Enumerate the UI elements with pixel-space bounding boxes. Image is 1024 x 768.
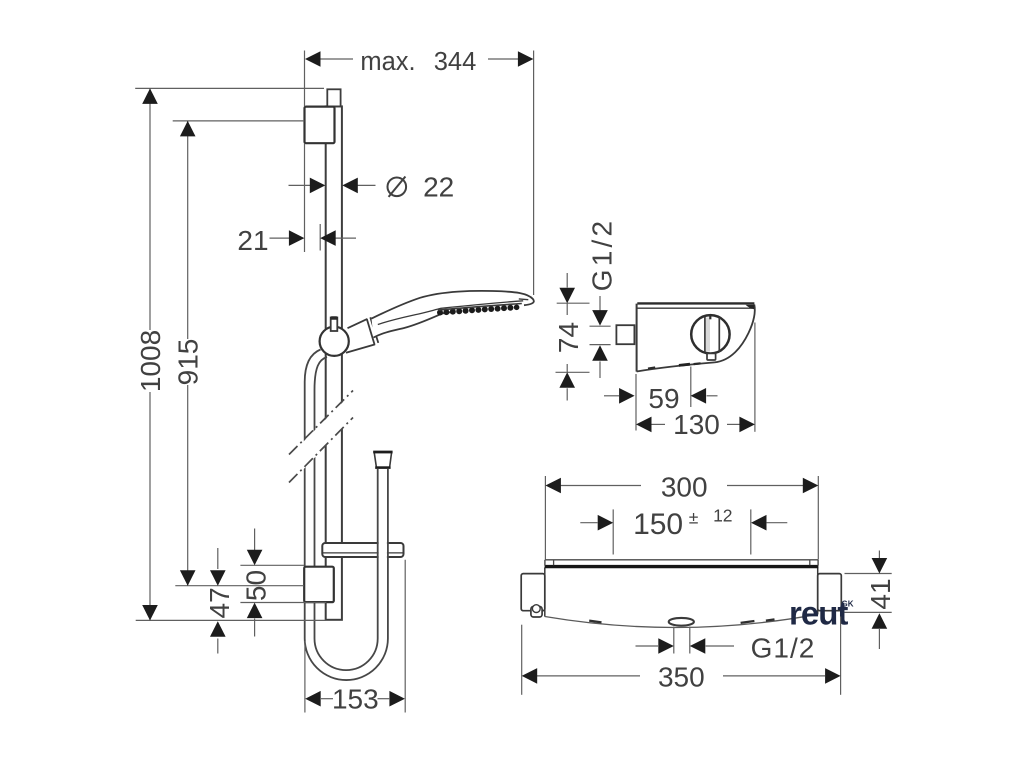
valve body bottom edge <box>637 362 715 371</box>
rail top cap <box>327 89 340 106</box>
dim 350 ext right <box>840 617 842 695</box>
mixer top bar thin top line <box>545 559 818 561</box>
dim 300 line left <box>560 485 641 487</box>
check valve nub <box>531 607 542 618</box>
svg-text:915: 915 <box>173 339 204 386</box>
arrow 150 right <box>751 515 767 531</box>
arrow 300 left <box>545 478 561 494</box>
shower hose right wall inner <box>377 469 379 639</box>
svg-text:G1/2: G1/2 <box>587 218 618 292</box>
shower hose bottom U inner <box>315 639 378 671</box>
knob grip grey band <box>706 318 710 352</box>
dim 915 line upper <box>187 121 189 339</box>
svg-text:50: 50 <box>241 570 272 601</box>
bottom curve dash right1 <box>741 621 755 623</box>
dim 300 ext left <box>544 476 546 560</box>
svg-text:22: 22 <box>423 172 454 203</box>
arrow 47 bottom <box>210 621 226 637</box>
arrow 153 right <box>389 691 405 707</box>
dim 153 line right <box>378 698 390 700</box>
dim 300 line right <box>727 485 803 487</box>
hand shower grip bottom outline <box>374 312 451 337</box>
knob grip right line <box>718 317 720 351</box>
slider knob circle <box>320 327 349 356</box>
dim port tail right <box>706 645 734 647</box>
wall bar rail <box>326 106 342 619</box>
mixer body right edge <box>817 568 819 615</box>
shower hose right wall outer <box>387 469 389 639</box>
valve underside dash left <box>648 367 655 368</box>
arrow 47 top <box>210 570 226 586</box>
arrow 1008 bottom <box>142 605 158 621</box>
dim 50 line lower <box>254 619 256 637</box>
handle ring line 1 <box>367 319 375 345</box>
hose fitting bottom edge <box>375 466 390 469</box>
arrow 153 left <box>305 691 321 707</box>
arrow port right <box>690 638 706 654</box>
hand shower body fill <box>372 291 534 338</box>
dim g12side tick top <box>590 325 611 327</box>
arrow 350 left <box>522 668 538 684</box>
arrow 50 bottom <box>247 603 263 619</box>
bottom curve dash left <box>589 621 601 623</box>
svg-text:350: 350 <box>658 662 705 693</box>
arrow d22 right <box>342 178 358 194</box>
arrow 50 top <box>247 550 263 566</box>
head tip cap line <box>519 298 529 301</box>
svg-text:153: 153 <box>332 684 379 715</box>
dim 915 ext top <box>173 120 305 122</box>
svg-text:G1/2: G1/2 <box>751 633 816 664</box>
label diameter symbol <box>388 178 407 197</box>
arrow 150 left <box>598 515 614 531</box>
top bar right end edge <box>817 560 819 566</box>
arrow port left <box>658 638 674 654</box>
check valve nub circle <box>532 605 540 613</box>
svg-text:41: 41 <box>865 578 896 609</box>
dim 915 ext bottom <box>175 585 304 587</box>
dim 130 line left <box>652 423 666 425</box>
bracket edge leader <box>304 143 306 252</box>
svg-text:max.: max. <box>360 48 415 76</box>
arrow 41 bottom <box>872 613 888 629</box>
top wall bracket <box>305 107 335 144</box>
soap dish shelf <box>322 543 403 557</box>
rail break gap <box>293 394 351 480</box>
mixer body left edge <box>544 568 546 617</box>
dim 41 ext top <box>845 573 892 575</box>
arrow 59 right <box>691 388 707 404</box>
mixer top bar heavy line <box>545 565 819 568</box>
top bar right end tick <box>809 560 811 565</box>
arrow 74 bottom <box>559 372 575 388</box>
dim 1008 line lower <box>149 392 151 621</box>
mixer body bottom curve <box>545 614 818 627</box>
grip inner top line <box>378 301 523 325</box>
dim 915 line lower <box>187 385 189 586</box>
dim 300 ext right <box>817 476 819 560</box>
svg-text:±: ± <box>689 508 699 528</box>
break mark line lower <box>289 418 353 483</box>
svg-text:300: 300 <box>661 472 708 503</box>
arrow max344 right <box>518 51 534 67</box>
arrow 130 left <box>636 417 652 433</box>
knob grip left line <box>704 317 706 352</box>
bottom wall bracket <box>304 567 334 602</box>
dim 47 line upper <box>217 548 219 569</box>
svg-text:344: 344 <box>434 48 477 76</box>
bottom curve dash right2 <box>766 619 775 620</box>
hand shower top outline <box>372 291 534 319</box>
valve body side view fill <box>637 303 755 371</box>
hose fitting top edge <box>373 451 392 454</box>
spray nozzles <box>437 305 519 316</box>
valve top right dark corner <box>746 305 755 310</box>
arrow 21 right <box>320 230 336 246</box>
dim 74 ext top <box>557 302 590 304</box>
arrow 130 right <box>739 417 755 433</box>
outlet port ellipse <box>669 618 694 626</box>
arrow 1008 top <box>142 88 158 104</box>
dim 150 tail right <box>767 522 788 524</box>
dim 153 line left <box>321 698 333 700</box>
dim 74 line bottom <box>566 388 568 400</box>
dim 74 seg upper <box>566 303 568 315</box>
arrow 41 top <box>872 558 888 574</box>
arrow 915 bottom <box>180 570 196 586</box>
dim 74 ext bottom <box>556 371 590 373</box>
dim 150 ext right <box>750 509 752 554</box>
dim 21 tail left <box>270 237 290 239</box>
dim port tail left <box>636 645 659 647</box>
dim 1008 ext top <box>135 87 324 89</box>
dim 50 line upper <box>254 529 256 551</box>
dim max344 ext right <box>533 51 535 296</box>
dim 150 tail left <box>580 522 597 524</box>
svg-text:GK: GK <box>842 600 854 609</box>
knob bottom tab <box>707 353 716 360</box>
dim 41 line bottom <box>878 629 880 649</box>
handle cone bottom edge <box>346 344 375 352</box>
spray face lower line <box>438 304 522 311</box>
dim d22 tail left <box>289 184 311 186</box>
top bar left end edge <box>544 560 546 566</box>
dim max344 ext left <box>304 51 306 107</box>
dim port ext left <box>673 627 675 654</box>
arrow 350 right <box>825 668 841 684</box>
svg-text:150: 150 <box>633 508 683 541</box>
svg-text:47: 47 <box>204 587 235 618</box>
dim 1008 ext bottom <box>136 619 326 621</box>
dim g12side line lower <box>599 361 601 378</box>
arrow g12side top <box>592 310 608 326</box>
arrow 21 left <box>289 230 305 246</box>
valve body top edge <box>637 302 754 304</box>
dim max344 line right <box>488 58 520 60</box>
dim max344 line left <box>318 58 353 60</box>
slider knob pin <box>331 318 338 332</box>
hose conical fitting <box>374 452 391 467</box>
dim 21 tail right <box>336 237 357 239</box>
shower hose right tube fill <box>379 469 387 639</box>
dim 350 ext left <box>521 625 523 695</box>
dim 350 line right <box>723 675 825 677</box>
valve underside port mark <box>679 364 690 365</box>
mixer body front fill <box>545 568 818 628</box>
valve body top inner line <box>637 307 753 309</box>
svg-text:reut: reut <box>789 595 848 632</box>
dim 130 ext right <box>754 323 756 432</box>
dim 74 line top <box>566 273 568 288</box>
dim g12side tick bottom <box>590 344 611 346</box>
arrow max344 left <box>305 51 321 67</box>
svg-text:74: 74 <box>553 322 584 353</box>
dim d22 tail right <box>358 184 376 186</box>
dim 41 ext bottom <box>845 611 892 613</box>
slider leader line <box>319 224 321 251</box>
svg-text:12: 12 <box>713 506 732 526</box>
valve port ext <box>690 367 692 408</box>
dim 350 line left <box>537 675 640 677</box>
arrow g12side bottom <box>592 345 608 361</box>
valve knob circle <box>691 315 729 353</box>
arrow 74 top <box>559 288 575 304</box>
dim 153 ext right <box>404 560 406 713</box>
valve G1/2 inlet stub <box>616 325 634 344</box>
mixer right cap <box>818 574 842 611</box>
shelf inner line <box>323 552 403 554</box>
svg-text:21: 21 <box>237 225 268 256</box>
valve body right curve <box>715 305 755 363</box>
dim 1008 line upper <box>149 88 151 330</box>
arrow 59 left <box>619 388 635 404</box>
valve body left edge <box>636 304 638 372</box>
dim 50 ext bottom <box>240 602 326 604</box>
valve underside dash right <box>694 362 701 365</box>
dim 150 ext left <box>612 509 614 554</box>
dim 50 ext top <box>240 564 304 566</box>
knob top tick <box>709 315 711 319</box>
handle cone top edge <box>348 319 368 328</box>
top bar left end tick <box>553 560 555 565</box>
dim port ext right <box>689 627 691 654</box>
shower hose bottom U outer <box>305 639 388 681</box>
mixer left cap <box>521 574 545 611</box>
shower hose left inner wall <box>315 357 328 639</box>
valve left edge ext <box>635 374 637 431</box>
dim 59 tail left <box>604 395 619 397</box>
dim 74 seg lower <box>566 364 568 372</box>
dim 130 line right <box>727 423 740 425</box>
svg-text:130: 130 <box>673 409 720 440</box>
break mark line upper <box>289 391 353 455</box>
dim 47 line lower <box>217 639 219 654</box>
svg-text:1008: 1008 <box>135 330 166 392</box>
arrow 300 right <box>803 478 819 494</box>
arrow 915 top <box>180 121 196 136</box>
dim g12side line upper <box>599 296 601 311</box>
handle ring line 2 <box>370 317 378 343</box>
arrow d22 left <box>310 178 326 194</box>
dim 41 line top <box>878 551 880 559</box>
dim 59 tail right <box>707 395 718 397</box>
dim 153 ext left <box>304 641 306 713</box>
handle cone <box>346 319 375 353</box>
slider knob pin dark cap <box>330 316 338 320</box>
shower hose left outer wall <box>305 350 321 639</box>
